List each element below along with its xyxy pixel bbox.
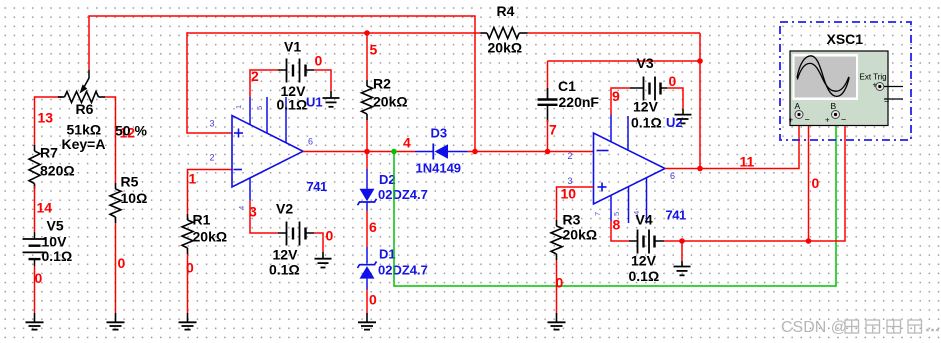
svg-text:2: 2 bbox=[251, 68, 259, 84]
svg-text:R5: R5 bbox=[121, 174, 139, 190]
battery V2 bbox=[278, 222, 314, 246]
oscilloscope XSC1 dashed selection box bbox=[780, 22, 911, 140]
ground (V3) bbox=[675, 109, 692, 123]
svg-text:V2: V2 bbox=[276, 201, 293, 217]
svg-text:R4: R4 bbox=[497, 3, 515, 19]
wire net10 U2 + input to R3 bbox=[557, 187, 594, 220]
svg-text:Key=A: Key=A bbox=[62, 136, 106, 152]
wire net0 R3 to ground bbox=[556, 260, 558, 313]
junction net11 output bbox=[697, 166, 703, 172]
svg-text:20kΩ: 20kΩ bbox=[563, 227, 598, 243]
svg-text:+: + bbox=[873, 81, 878, 90]
svg-text:20kΩ: 20kΩ bbox=[488, 40, 523, 56]
op-amp U2 bbox=[594, 115, 666, 224]
wire net5 to U1 + input bbox=[187, 32, 232, 133]
battery V1 bbox=[278, 59, 314, 83]
potentiometer R6 bbox=[35, 70, 116, 103]
capacitor C1 bbox=[538, 61, 558, 152]
svg-text:0: 0 bbox=[812, 175, 820, 191]
ground (V5) bbox=[26, 313, 44, 330]
label R2 bbox=[373, 76, 408, 110]
ground (R1) bbox=[179, 313, 197, 330]
svg-text:6: 6 bbox=[369, 219, 377, 235]
wire net1 U1 inverting input to R1 bbox=[188, 170, 233, 215]
svg-text:D2: D2 bbox=[379, 172, 396, 187]
svg-text:+: + bbox=[789, 116, 794, 125]
label D2 bbox=[378, 172, 428, 202]
svg-text:CSDN @: CSDN @ bbox=[781, 319, 847, 336]
wire net7 D3 to C1/U2 bbox=[468, 151, 594, 153]
resistor R3 bbox=[551, 220, 562, 260]
svg-text:02DZ4.7: 02DZ4.7 bbox=[378, 263, 428, 278]
battery V4 bbox=[629, 230, 664, 254]
svg-text:820Ω: 820Ω bbox=[40, 163, 75, 179]
svg-text:−: − bbox=[805, 115, 810, 125]
junction node4 (R2) bbox=[364, 149, 370, 155]
wire net8 U2 V- to V4 bbox=[611, 221, 629, 241]
svg-text:20kΩ: 20kΩ bbox=[373, 94, 408, 110]
wire net0 R5 to ground bbox=[115, 223, 117, 313]
svg-text:5: 5 bbox=[255, 106, 264, 110]
label V4 bbox=[629, 212, 660, 285]
svg-text:3: 3 bbox=[249, 204, 257, 220]
svg-text:13: 13 bbox=[38, 110, 54, 126]
wire net5 down to R2 bbox=[366, 33, 368, 80]
resistor R4 bbox=[481, 28, 528, 39]
label V5 bbox=[42, 218, 73, 265]
svg-text:14: 14 bbox=[37, 200, 53, 216]
oscilloscope screen bbox=[793, 54, 859, 100]
svg-text:R2: R2 bbox=[373, 76, 391, 92]
wire net6 between zeners bbox=[366, 211, 368, 248]
scope channel B terminal bbox=[825, 101, 846, 125]
svg-text:12V: 12V bbox=[633, 99, 659, 115]
svg-text:V4: V4 bbox=[636, 212, 653, 228]
ground (R5) bbox=[107, 313, 125, 330]
ground (V4) bbox=[674, 261, 691, 275]
label D1 bbox=[378, 247, 428, 278]
svg-text:U2: U2 bbox=[666, 115, 683, 130]
wire net11 vertical (R4 right to output) bbox=[699, 33, 701, 169]
svg-text:11: 11 bbox=[740, 154, 755, 170]
label D3 bbox=[416, 126, 462, 176]
junction net0 (scope A minus) bbox=[806, 238, 812, 244]
wire net4 U1 output line bbox=[303, 151, 415, 153]
wire green U1 output to scope B bbox=[394, 118, 836, 286]
svg-text:10Ω: 10Ω bbox=[121, 190, 148, 206]
svg-text:0: 0 bbox=[35, 270, 43, 286]
wire net4 R2 to output line bbox=[366, 120, 368, 152]
label V1 bbox=[277, 39, 308, 113]
svg-text:0: 0 bbox=[369, 292, 377, 308]
junction net7 (wiper feed) bbox=[472, 149, 478, 155]
svg-text:2: 2 bbox=[210, 153, 215, 163]
svg-text:3: 3 bbox=[210, 119, 215, 129]
wire net5 horizontal (R4 line) bbox=[187, 32, 700, 34]
svg-text:741: 741 bbox=[307, 179, 327, 194]
svg-text:0.1Ω: 0.1Ω bbox=[631, 115, 662, 131]
svg-text:7: 7 bbox=[593, 212, 602, 216]
wire net0 V3 to ground bbox=[667, 88, 683, 109]
svg-text:4: 4 bbox=[237, 206, 246, 210]
label R4 bbox=[488, 3, 523, 56]
svg-text:0.1Ω: 0.1Ω bbox=[42, 248, 73, 264]
svg-text:9: 9 bbox=[612, 88, 620, 104]
svg-text:R3: R3 bbox=[563, 212, 581, 228]
svg-text:10: 10 bbox=[561, 186, 577, 202]
junction node5 bbox=[364, 30, 370, 36]
watermark CSDN bbox=[781, 319, 939, 336]
svg-text:B: B bbox=[831, 101, 837, 111]
svg-text:50 %: 50 % bbox=[115, 123, 147, 139]
svg-text:R1: R1 bbox=[193, 212, 211, 228]
svg-text:0: 0 bbox=[315, 53, 323, 69]
junction net0 (V4 ground) bbox=[679, 238, 685, 244]
ground (V2) bbox=[315, 252, 332, 268]
svg-text:3: 3 bbox=[568, 176, 573, 186]
resistor R2 bbox=[362, 80, 373, 120]
svg-text:2: 2 bbox=[568, 151, 573, 161]
diode D3 bbox=[415, 144, 468, 160]
svg-text:+: + bbox=[825, 116, 830, 125]
svg-text:A: A bbox=[795, 101, 801, 111]
ground (V1) bbox=[323, 91, 340, 107]
wire net11 C1 top to feedback bbox=[548, 60, 701, 62]
svg-text:−: − bbox=[884, 97, 889, 107]
ground (R3) bbox=[548, 313, 566, 330]
svg-text:XSC1: XSC1 bbox=[827, 31, 864, 47]
svg-text:0.1Ω: 0.1Ω bbox=[269, 262, 300, 278]
label R3 bbox=[563, 212, 598, 243]
svg-text:U1: U1 bbox=[306, 95, 323, 110]
wire net13 left branch bbox=[34, 96, 36, 146]
resistor R7 bbox=[29, 145, 40, 189]
svg-text:0.1Ω: 0.1Ω bbox=[277, 97, 308, 113]
junction green net4 bbox=[391, 149, 397, 155]
svg-text:1: 1 bbox=[234, 105, 243, 109]
zener diode D2 bbox=[358, 152, 377, 211]
svg-text:12V: 12V bbox=[631, 253, 657, 269]
wire net0 V1 to ground bbox=[314, 70, 331, 91]
svg-text:V1: V1 bbox=[284, 39, 301, 55]
svg-text:7: 7 bbox=[549, 122, 557, 138]
svg-text:4: 4 bbox=[403, 135, 411, 151]
wire net0 V5 to ground bbox=[34, 266, 36, 313]
wire net9 V3 to U2 V+ bbox=[611, 88, 630, 115]
svg-text:−: − bbox=[841, 115, 846, 125]
label R5 bbox=[121, 174, 148, 207]
battery V3 bbox=[630, 77, 667, 101]
svg-text:6: 6 bbox=[670, 171, 675, 181]
svg-text:1: 1 bbox=[189, 171, 197, 187]
wire net0 scope A minus bbox=[808, 118, 810, 241]
svg-text:741: 741 bbox=[666, 208, 686, 223]
svg-text:R7: R7 bbox=[40, 145, 58, 161]
resistor R5 bbox=[110, 183, 121, 223]
svg-text:V5: V5 bbox=[47, 218, 64, 234]
resistor R1 bbox=[182, 214, 193, 254]
wire net2 U1 V+ to V1 bbox=[250, 70, 278, 97]
svg-text:5: 5 bbox=[612, 212, 621, 216]
screen sine waves bbox=[797, 56, 849, 97]
svg-text:6: 6 bbox=[308, 137, 313, 147]
wire net14 bbox=[34, 186, 36, 232]
junction net11 (C1 feedback) bbox=[697, 58, 703, 64]
wire net3 U1 V- to V2 bbox=[250, 200, 278, 233]
svg-text:D1: D1 bbox=[379, 247, 396, 262]
svg-text:V3: V3 bbox=[637, 55, 654, 71]
svg-text:0: 0 bbox=[118, 255, 126, 271]
svg-text:D3: D3 bbox=[431, 126, 448, 141]
battery V5 bbox=[23, 232, 47, 266]
wire net11 U2 output to scope A bbox=[665, 118, 799, 169]
wire net0 zeners to ground bbox=[366, 290, 368, 314]
label V2 bbox=[269, 201, 300, 278]
svg-text:0: 0 bbox=[669, 73, 677, 89]
op-amp U1 bbox=[232, 97, 303, 200]
wire net0 V4 line to scope minus terminals bbox=[664, 118, 845, 241]
ext trig terminal bbox=[873, 81, 904, 107]
label R6 bbox=[62, 101, 106, 152]
label V3 bbox=[631, 55, 662, 131]
oscilloscope body bbox=[790, 51, 888, 126]
wire net0 R1 to ground bbox=[187, 254, 189, 313]
svg-text:20kΩ: 20kΩ bbox=[193, 229, 228, 245]
label R7 bbox=[40, 145, 75, 179]
wire net7 top feedback from R6 wiper bbox=[89, 15, 475, 151]
svg-text:8: 8 bbox=[613, 217, 621, 233]
junction net7 (C1) bbox=[545, 149, 551, 155]
svg-text:R6: R6 bbox=[76, 101, 94, 117]
wire net0 V2 to ground bbox=[314, 233, 323, 252]
svg-text:5: 5 bbox=[370, 42, 378, 58]
label R1 bbox=[193, 212, 228, 245]
svg-text:1N4149: 1N4149 bbox=[416, 161, 462, 176]
svg-text:0.1Ω: 0.1Ω bbox=[629, 268, 660, 284]
svg-text:12V: 12V bbox=[273, 247, 299, 263]
ground (zeners) bbox=[358, 313, 376, 330]
zener diode D1 bbox=[358, 247, 377, 290]
svg-text:220nF: 220nF bbox=[559, 94, 600, 110]
label C1 bbox=[558, 78, 599, 110]
svg-text:02DZ4.7: 02DZ4.7 bbox=[378, 187, 428, 202]
scope channel A terminal bbox=[789, 101, 810, 125]
svg-text:0: 0 bbox=[326, 228, 334, 244]
wire net12 R5 branch bbox=[115, 96, 117, 183]
svg-text:C1: C1 bbox=[558, 78, 576, 94]
wire net0 ground drop (V4) bbox=[681, 241, 683, 261]
